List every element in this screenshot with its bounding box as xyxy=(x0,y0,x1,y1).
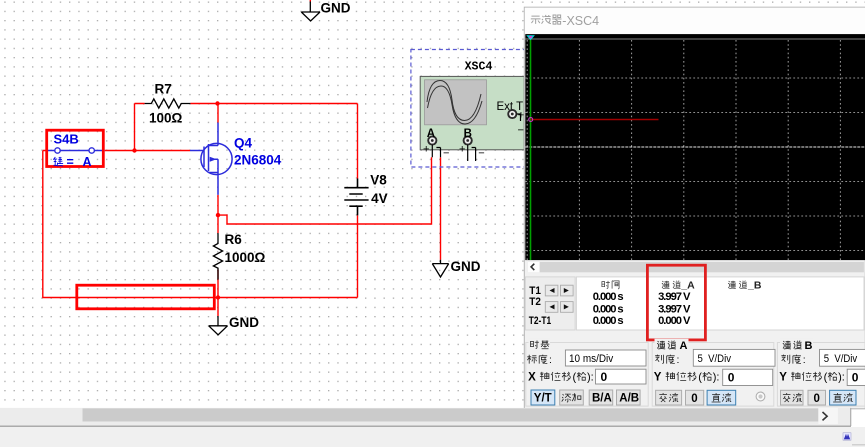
svg-text:Y: Y xyxy=(779,372,787,384)
svg-text:):: ): xyxy=(713,372,720,384)
svg-text:5 V/Div: 5 V/Div xyxy=(824,353,858,365)
svg-text:10 ms/Div: 10 ms/Div xyxy=(569,353,614,365)
svg-text:A/B: A/B xyxy=(619,393,639,405)
svg-text:2N6804: 2N6804 xyxy=(234,153,282,168)
svg-text:+: + xyxy=(459,144,465,156)
svg-text:T2: T2 xyxy=(529,296,541,308)
svg-text:0: 0 xyxy=(728,370,735,384)
svg-text:Y/T: Y/T xyxy=(534,393,552,405)
svg-text:−: − xyxy=(443,148,449,160)
svg-text:GND: GND xyxy=(229,315,259,330)
svg-text:4V: 4V xyxy=(371,191,388,206)
svg-text:0: 0 xyxy=(852,370,859,384)
svg-text:1000Ω: 1000Ω xyxy=(225,250,266,265)
svg-text:= A: = A xyxy=(67,155,92,169)
svg-text:B/A: B/A xyxy=(592,393,612,405)
svg-text:5 V/Div: 5 V/Div xyxy=(698,353,732,365)
svg-text:B: B xyxy=(464,128,472,140)
svg-text:(: ( xyxy=(573,372,577,384)
svg-text:X: X xyxy=(528,372,536,384)
svg-text:V8: V8 xyxy=(370,172,387,187)
svg-text:100Ω: 100Ω xyxy=(149,111,183,126)
svg-text:):: ): xyxy=(587,372,594,384)
svg-text:+: + xyxy=(423,144,429,156)
svg-text::: : xyxy=(677,354,680,366)
svg-text:XSC4: XSC4 xyxy=(465,61,493,74)
svg-text:-XSC4: -XSC4 xyxy=(562,14,599,28)
svg-text:0.000 s: 0.000 s xyxy=(593,303,624,315)
svg-text:GND: GND xyxy=(451,259,481,274)
svg-text:0: 0 xyxy=(691,393,697,405)
svg-text:0: 0 xyxy=(601,370,608,384)
svg-text:Q4: Q4 xyxy=(234,136,253,151)
svg-text:R7: R7 xyxy=(155,82,172,97)
svg-text:0.000 s: 0.000 s xyxy=(593,315,624,327)
svg-text:A: A xyxy=(427,128,435,140)
svg-text:Y: Y xyxy=(654,372,662,384)
svg-text:0.000 s: 0.000 s xyxy=(593,291,624,303)
svg-text:3.997 V: 3.997 V xyxy=(658,291,691,303)
svg-text:A: A xyxy=(680,340,688,352)
svg-text:−: − xyxy=(518,125,524,137)
svg-text:(: ( xyxy=(824,372,828,384)
svg-text:0.000 V: 0.000 V xyxy=(658,315,691,327)
svg-text::: : xyxy=(549,354,552,366)
svg-text:0: 0 xyxy=(814,393,820,405)
svg-text:_A: _A xyxy=(680,280,695,292)
svg-text:−: − xyxy=(478,148,484,160)
svg-text:):: ): xyxy=(838,372,845,384)
svg-text:(: ( xyxy=(698,372,702,384)
svg-text:GND: GND xyxy=(321,1,351,16)
svg-text::: : xyxy=(803,354,806,366)
svg-text:B: B xyxy=(805,340,813,352)
svg-text:R6: R6 xyxy=(225,232,243,247)
svg-text:+: + xyxy=(518,109,524,121)
svg-text:_B: _B xyxy=(747,280,762,292)
svg-text:S4B: S4B xyxy=(54,132,79,147)
svg-text:3.997 V: 3.997 V xyxy=(658,303,691,315)
svg-text:T2-T1: T2-T1 xyxy=(529,315,551,327)
